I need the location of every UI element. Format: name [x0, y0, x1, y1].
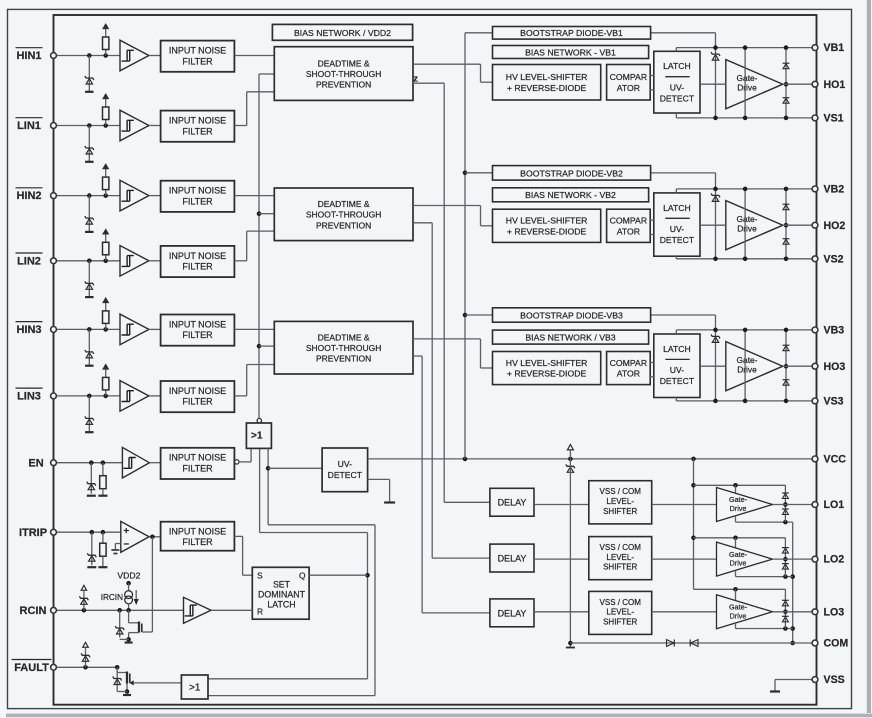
svg-text:DEADTIME &: DEADTIME & — [318, 333, 370, 343]
svg-text:ITRIP: ITRIP — [19, 527, 47, 539]
svg-text:SET: SET — [273, 579, 291, 589]
svg-text:FAULT: FAULT — [14, 662, 49, 674]
svg-text:HO3: HO3 — [824, 361, 846, 373]
svg-text:HO2: HO2 — [824, 220, 846, 232]
svg-text:BOOTSTRAP DIODE-VB3: BOOTSTRAP DIODE-VB3 — [520, 310, 623, 320]
svg-text:DEADTIME &: DEADTIME & — [318, 58, 370, 68]
svg-text:FILTER: FILTER — [182, 126, 213, 136]
svg-text:Drive: Drive — [730, 611, 747, 620]
svg-text:FILTER: FILTER — [182, 537, 213, 547]
svg-text:PREVENTION: PREVENTION — [316, 354, 371, 364]
svg-text:UV-: UV- — [670, 224, 684, 234]
svg-text:HO1: HO1 — [824, 79, 846, 91]
svg-text:HIN2: HIN2 — [16, 190, 41, 202]
svg-text:PREVENTION: PREVENTION — [316, 80, 371, 90]
svg-text:UV-: UV- — [338, 459, 352, 469]
svg-text:VB3: VB3 — [824, 325, 845, 337]
svg-text:INPUT NOISE: INPUT NOISE — [169, 526, 226, 536]
svg-text:VSS / COM: VSS / COM — [600, 598, 642, 607]
svg-text:LATCH: LATCH — [663, 203, 691, 213]
svg-text:LO1: LO1 — [824, 499, 845, 511]
svg-text:Gate-: Gate- — [729, 550, 748, 559]
svg-text:VS2: VS2 — [824, 253, 844, 265]
svg-text:DELAY: DELAY — [498, 608, 527, 618]
svg-text:SHIFTER: SHIFTER — [603, 617, 637, 626]
svg-text:UV-: UV- — [670, 82, 684, 92]
svg-text:DOMINANT: DOMINANT — [258, 589, 306, 599]
svg-text:LO2: LO2 — [824, 554, 845, 566]
svg-text:COM: COM — [824, 638, 849, 650]
svg-text:INPUT NOISE: INPUT NOISE — [169, 186, 226, 196]
svg-text:ATOR: ATOR — [617, 369, 640, 379]
svg-text:LEVEL-: LEVEL- — [606, 497, 634, 506]
svg-text:SHIFTER: SHIFTER — [603, 563, 637, 572]
svg-text:INPUT NOISE: INPUT NOISE — [169, 46, 226, 56]
svg-text:VB2: VB2 — [824, 184, 845, 196]
svg-text:DETECT: DETECT — [328, 470, 363, 480]
svg-text:Q: Q — [299, 570, 306, 580]
svg-text:LATCH: LATCH — [267, 599, 295, 609]
svg-text:DETECT: DETECT — [660, 376, 695, 386]
svg-text:>1: >1 — [189, 683, 201, 694]
svg-text:LATCH: LATCH — [663, 61, 691, 71]
svg-text:Gate-: Gate- — [729, 603, 748, 612]
svg-text:BIAS NETWORK / VDD2: BIAS NETWORK / VDD2 — [294, 28, 391, 38]
svg-text:VSS / COM: VSS / COM — [600, 543, 642, 552]
svg-text:SHOOT-THROUGH: SHOOT-THROUGH — [306, 210, 382, 220]
svg-text:DELAY: DELAY — [498, 498, 527, 508]
svg-text:HV LEVEL-SHIFTER: HV LEVEL-SHIFTER — [506, 358, 588, 368]
svg-text:INPUT NOISE: INPUT NOISE — [169, 453, 226, 463]
svg-text:BIAS NETWORK / VB3: BIAS NETWORK / VB3 — [525, 333, 615, 343]
svg-text:+: + — [124, 526, 130, 537]
svg-text:COMPAR: COMPAR — [610, 72, 648, 82]
svg-text:+ REVERSE-DIODE: + REVERSE-DIODE — [507, 369, 587, 379]
svg-text:SHOOT-THROUGH: SHOOT-THROUGH — [306, 343, 382, 353]
svg-text:VS1: VS1 — [824, 113, 844, 125]
svg-text:LEVEL-: LEVEL- — [606, 553, 634, 562]
svg-text:LIN1: LIN1 — [17, 120, 41, 132]
svg-text:INPUT NOISE: INPUT NOISE — [169, 116, 226, 126]
svg-text:FILTER: FILTER — [182, 262, 213, 272]
svg-text:DELAY: DELAY — [498, 553, 527, 563]
svg-text:Gate-: Gate- — [729, 495, 748, 504]
svg-text:COMPAR: COMPAR — [610, 216, 648, 226]
svg-text:VCC: VCC — [824, 454, 847, 466]
svg-text:FILTER: FILTER — [182, 196, 213, 206]
svg-text:PREVENTION: PREVENTION — [316, 220, 371, 230]
svg-text:LATCH: LATCH — [663, 344, 691, 354]
svg-text:LO3: LO3 — [824, 606, 845, 618]
svg-text:HV LEVEL-SHIFTER: HV LEVEL-SHIFTER — [506, 72, 588, 82]
svg-text:FILTER: FILTER — [182, 397, 213, 407]
svg-text:FILTER: FILTER — [182, 56, 213, 66]
svg-text:Drive: Drive — [730, 559, 747, 568]
svg-text:DETECT: DETECT — [660, 235, 695, 245]
svg-text:+ REVERSE-DIODE: + REVERSE-DIODE — [507, 83, 587, 93]
svg-text:VB1: VB1 — [824, 42, 845, 54]
svg-text:BOOTSTRAP DIODE-VB2: BOOTSTRAP DIODE-VB2 — [520, 168, 623, 178]
svg-text:INPUT NOISE: INPUT NOISE — [169, 386, 226, 396]
svg-text:FILTER: FILTER — [182, 464, 213, 474]
svg-text:−: − — [124, 539, 130, 550]
svg-text:LIN3: LIN3 — [17, 391, 41, 403]
svg-text:INPUT NOISE: INPUT NOISE — [169, 251, 226, 261]
svg-text:FILTER: FILTER — [182, 330, 213, 340]
svg-text:SHIFTER: SHIFTER — [603, 507, 637, 516]
svg-text:LIN2: LIN2 — [17, 255, 41, 267]
svg-text:Drive: Drive — [730, 504, 747, 513]
svg-text:LEVEL-: LEVEL- — [606, 608, 634, 617]
svg-text:Drive: Drive — [737, 223, 757, 233]
svg-text:DEADTIME &: DEADTIME & — [318, 199, 370, 209]
svg-text:VDD2: VDD2 — [117, 571, 140, 581]
svg-text:EN: EN — [28, 457, 43, 469]
svg-text:INPUT NOISE: INPUT NOISE — [169, 319, 226, 329]
svg-text:Drive: Drive — [737, 82, 757, 92]
svg-text:RCIN: RCIN — [20, 605, 47, 617]
svg-text:S: S — [257, 570, 263, 580]
svg-text:IRCIN: IRCIN — [101, 593, 123, 602]
svg-text:VS3: VS3 — [824, 396, 844, 408]
svg-text:DETECT: DETECT — [660, 93, 695, 103]
svg-text:HV LEVEL-SHIFTER: HV LEVEL-SHIFTER — [506, 216, 588, 226]
svg-text:UV-: UV- — [670, 365, 684, 375]
svg-text:VSS / COM: VSS / COM — [600, 487, 642, 496]
svg-text:R: R — [257, 606, 263, 616]
svg-text:HIN1: HIN1 — [16, 50, 41, 62]
svg-text:+ REVERSE-DIODE: + REVERSE-DIODE — [507, 226, 587, 236]
svg-text:HIN3: HIN3 — [16, 324, 41, 336]
svg-text:Drive: Drive — [737, 364, 757, 374]
svg-text:COMPAR: COMPAR — [610, 358, 648, 368]
svg-text:SHOOT-THROUGH: SHOOT-THROUGH — [306, 69, 382, 79]
svg-text:ATOR: ATOR — [617, 226, 640, 236]
svg-text:>1: >1 — [251, 431, 263, 442]
svg-text:BIAS NETWORK - VB2: BIAS NETWORK - VB2 — [525, 190, 616, 200]
svg-text:BIAS NETWORK - VB1: BIAS NETWORK - VB1 — [525, 47, 616, 57]
svg-text:VSS: VSS — [824, 674, 845, 686]
svg-text:ATOR: ATOR — [617, 83, 640, 93]
svg-text:BOOTSTRAP DIODE-VB1: BOOTSTRAP DIODE-VB1 — [520, 28, 623, 38]
